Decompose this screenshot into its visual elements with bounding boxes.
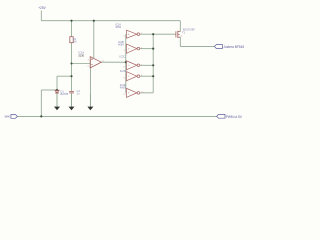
svg-text:3130: 3130 (78, 54, 84, 58)
svg-text:PWM ut 5V: PWM ut 5V (226, 115, 243, 119)
svg-text:Justera BF545: Justera BF545 (223, 45, 244, 49)
svg-text:IC2D: IC2D (120, 69, 126, 73)
svg-text:1M: 1M (73, 40, 77, 44)
svg-text:IC2C: IC2C (120, 55, 126, 59)
svg-text:MIK: MIK (5, 115, 10, 119)
svg-text:+25V: +25V (38, 6, 46, 10)
svg-text:4069: 4069 (120, 85, 126, 89)
svg-text:4069: 4069 (115, 25, 121, 29)
svg-text:4069: 4069 (118, 43, 124, 47)
svg-text:G: G (181, 36, 183, 38)
svg-text:BAT85: BAT85 (61, 92, 69, 96)
